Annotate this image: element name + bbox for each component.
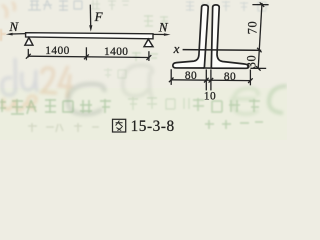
left angle profile <box>173 5 208 68</box>
axial force N right (arrow) <box>153 33 165 35</box>
svg-text:80: 80 <box>185 70 197 82</box>
watermark: orange cursive strokes bottom-left <box>3 96 36 110</box>
svg-text:30: 30 <box>244 55 258 69</box>
watermark: orange trace top-left corner <box>2 2 15 18</box>
watermark: green character row bottom-left <box>0 99 111 114</box>
force F (arrow) <box>89 5 91 27</box>
watermark: green characters mid-bottom <box>128 97 189 110</box>
top extension line <box>252 4 268 6</box>
watermark: green characters bottom-right <box>193 98 263 129</box>
right angle profile <box>211 5 248 68</box>
dimension 70/30: vertical dim line <box>250 2 268 70</box>
slash ticks <box>169 78 174 83</box>
svg-text:x: x <box>173 41 180 56</box>
bottom extension line <box>250 67 266 69</box>
svg-text:1400: 1400 <box>45 45 69 57</box>
svg-text:80: 80 <box>224 71 236 83</box>
support A (left triangle) <box>25 38 33 46</box>
gusset bottom edge across gap <box>203 67 213 69</box>
watermark: big light-green cursive ea <box>230 88 258 114</box>
slash ticks <box>26 54 31 59</box>
watermark: faint green near beam right <box>132 52 158 61</box>
dimension 1400+1400: extension lines <box>26 47 151 61</box>
svg-text:1400: 1400 <box>104 46 128 58</box>
paper background <box>0 0 287 140</box>
watermark: big green C right edge <box>269 86 287 113</box>
watermark: orange fragment left edge <box>1 29 6 41</box>
svg-text:N: N <box>8 19 19 34</box>
caption: glyph for 图 drawn as paths <box>113 119 126 132</box>
watermark: faint green chars under left dim <box>104 68 126 78</box>
svg-text:F: F <box>94 9 104 24</box>
svg-text:70: 70 <box>245 21 259 35</box>
axis x line <box>183 49 262 52</box>
svg-text:10: 10 <box>204 90 216 102</box>
dimension 80/80/10: extension + dim lines <box>169 69 253 90</box>
watermark: green characters mid-left of section <box>144 15 168 26</box>
dimension line <box>28 56 149 57</box>
svg-text:N: N <box>158 19 169 34</box>
support B (right triangle) <box>144 39 153 47</box>
watermark: big gray e/C letter <box>68 84 104 114</box>
watermark: faint strokes bottom strip <box>28 123 99 132</box>
svg-text:15-3-8: 15-3-8 <box>131 118 175 135</box>
watermark: big faint glyph under beam dims <box>123 65 153 98</box>
watermark: top right slate characters <box>186 1 266 11</box>
watermark: big cursive du24 bottom-left <box>2 58 73 98</box>
watermark: top slate character band <box>28 0 82 11</box>
axial force N left (arrow) <box>12 33 26 35</box>
beam <box>26 33 153 39</box>
slash ticks <box>260 2 265 7</box>
